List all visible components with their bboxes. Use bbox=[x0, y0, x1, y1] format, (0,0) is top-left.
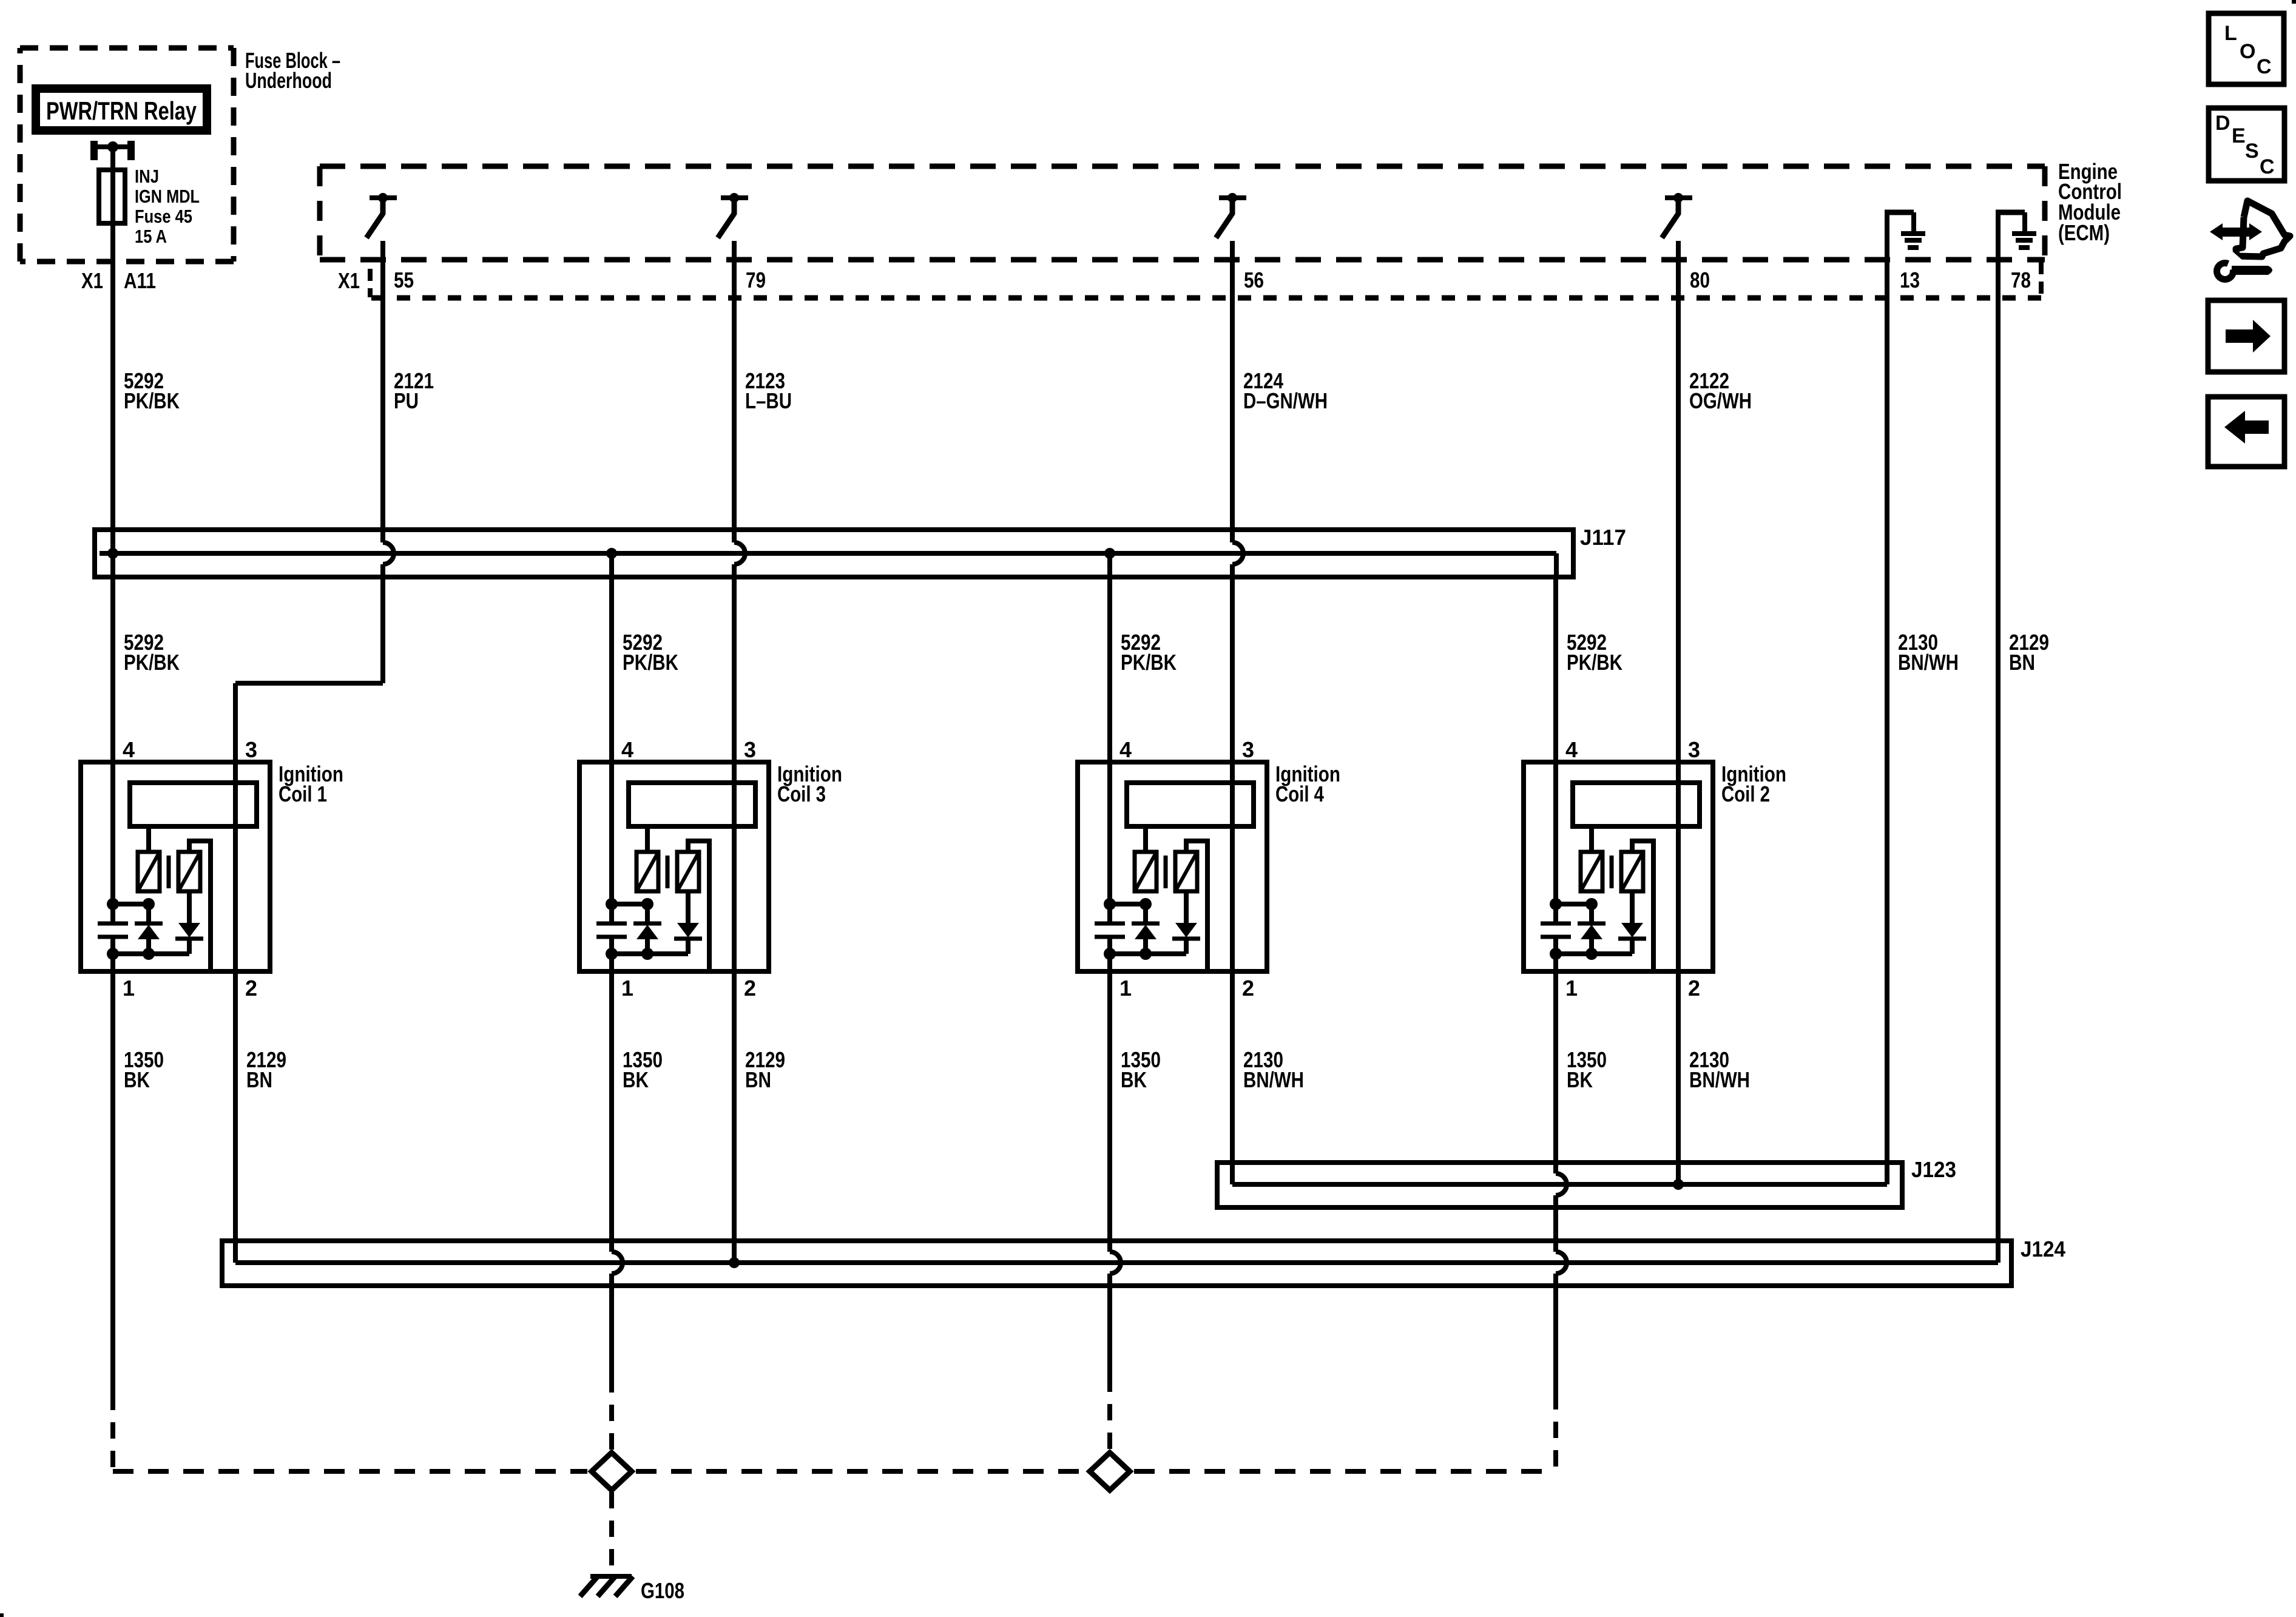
svg-text:Underhood: Underhood bbox=[245, 68, 332, 93]
wire label 2121 PU bbox=[394, 368, 434, 413]
svg-text:X1: X1 bbox=[338, 268, 360, 293]
svg-text:J117: J117 bbox=[1580, 525, 1626, 550]
coil 4 core bar bbox=[1164, 856, 1168, 888]
coil 2 internal node lower bbox=[1556, 951, 1632, 956]
svg-text:4: 4 bbox=[123, 737, 135, 762]
svg-text:BK: BK bbox=[124, 1067, 150, 1092]
wire 1350 BK coil 4 pin 1 bbox=[1107, 954, 1112, 1252]
svg-text:PK/BK: PK/BK bbox=[1121, 650, 1177, 675]
ECM driver switch pin 55 bbox=[366, 193, 397, 238]
icon forward arrow box bbox=[2208, 300, 2284, 372]
coil 2 internal node upper bbox=[1556, 902, 1592, 906]
svg-text:2: 2 bbox=[1242, 976, 1254, 1001]
coil 3 internal node lower bbox=[612, 951, 688, 956]
svg-text:OG/WH: OG/WH bbox=[1689, 388, 1752, 413]
svg-text:INJ: INJ bbox=[135, 166, 159, 187]
wire label 1350 BK coil 4 bbox=[1121, 1047, 1161, 1092]
ECM internal ground pin 78 bbox=[1996, 212, 2036, 248]
svg-text:Coil 1: Coil 1 bbox=[279, 781, 327, 806]
relay K PWR/TRN Relay bbox=[36, 89, 207, 130]
splice diamond coil 4 ground bbox=[1090, 1453, 1130, 1490]
svg-text:A11: A11 bbox=[124, 268, 156, 293]
coil 3 secondary output bbox=[688, 841, 709, 969]
coil 4 capacitor bbox=[1095, 904, 1125, 954]
svg-text:1: 1 bbox=[123, 976, 135, 1001]
ECM X1 separator bbox=[368, 269, 373, 297]
junction dot J117 coil 4 tap bbox=[1104, 548, 1115, 559]
junction dot J124 coil 3 pin 2 bbox=[729, 1257, 740, 1268]
svg-text:PWR/TRN Relay: PWR/TRN Relay bbox=[46, 96, 197, 125]
wire label 2130 BN/WH coil 2 bbox=[1689, 1047, 1750, 1092]
coil 4 internal node lower bbox=[1110, 951, 1186, 956]
splice diamond coil 3 ground bbox=[592, 1453, 632, 1490]
wire label 5292 PK/BK coil 2 bbox=[1567, 630, 1622, 675]
coil 1 primary winding bbox=[130, 783, 257, 826]
ECM connector dotted line bbox=[371, 295, 2041, 301]
svg-text:BK: BK bbox=[623, 1067, 649, 1092]
svg-text:BN/WH: BN/WH bbox=[1689, 1067, 1750, 1092]
coil 4 label bbox=[1275, 761, 1340, 806]
coil 4 secondary output bbox=[1186, 841, 1207, 969]
svg-text:4: 4 bbox=[1565, 737, 1578, 762]
wire label 1350 BK coil 3 bbox=[623, 1047, 663, 1092]
wire 2130 BN/WH coil 4 pin 2 to J123 bbox=[1230, 826, 1235, 1184]
coil 1 secondary output bbox=[189, 841, 211, 969]
svg-text:Coil 2: Coil 2 bbox=[1721, 781, 1770, 806]
wire 2130 BN/WH from ECM 13 to J123 bbox=[1885, 215, 1889, 1184]
wire 5292 PK/BK from fuse A11 to J117 and coil 1 pin 4 bbox=[110, 147, 115, 904]
junction dot J117 coil 3 tap bbox=[606, 548, 617, 559]
coil 4 driver module left element bbox=[1135, 826, 1156, 891]
wire label 5292 PK/BK coil 3 bbox=[623, 630, 678, 675]
ECM connector right edge stub bbox=[2039, 262, 2044, 298]
wire 5292 PK/BK J117 to coil 3 pin 4 bbox=[609, 553, 614, 904]
wire 5292 PK/BK J117 to coil 4 pin 4 bbox=[1107, 553, 1112, 904]
coil 4 primary winding bbox=[1127, 783, 1254, 826]
svg-text:78: 78 bbox=[2011, 268, 2031, 292]
svg-text:3: 3 bbox=[245, 737, 257, 762]
svg-text:BK: BK bbox=[1567, 1067, 1593, 1092]
coil 3 zener diode up bbox=[633, 904, 661, 954]
svg-text:4: 4 bbox=[1119, 737, 1132, 762]
wire label 5292 PK/BK bbox=[124, 368, 180, 413]
coil 1 driver module left element bbox=[138, 826, 160, 891]
svg-text:E: E bbox=[2232, 124, 2246, 147]
ECM driver switch pin 56 bbox=[1216, 193, 1246, 238]
coil 2 capacitor bbox=[1541, 904, 1571, 954]
fuse F45 INJ IGN MDL Fuse 45 15 A bbox=[99, 166, 200, 247]
coil 4 diode down bbox=[1172, 891, 1200, 954]
svg-text:80: 80 bbox=[1690, 268, 1710, 292]
svg-text:(ECM): (ECM) bbox=[2058, 220, 2110, 245]
dashed ground drop coil 4 bbox=[1107, 1376, 1112, 1451]
svg-text:C: C bbox=[2260, 155, 2275, 178]
coil 1 diode down bbox=[175, 891, 203, 954]
wire 2121 PU from ECM 55 to coil 1 pin 3 bbox=[235, 241, 394, 1263]
coil 1 capacitor bbox=[98, 904, 128, 954]
svg-text:X1: X1 bbox=[81, 268, 103, 293]
wire label 2129 BN coil 3 bbox=[745, 1047, 785, 1092]
page corner mark top right bbox=[2292, 0, 2296, 4]
svg-text:J123: J123 bbox=[1911, 1157, 1956, 1182]
coil 2 driver module right element bbox=[1621, 852, 1643, 891]
svg-text:IGN MDL: IGN MDL bbox=[135, 186, 200, 207]
svg-text:Coil 3: Coil 3 bbox=[777, 781, 826, 806]
coil 2 secondary output bbox=[1632, 841, 1653, 969]
svg-text:J124: J124 bbox=[2021, 1237, 2065, 1261]
wire label 2129 BN coil 1 bbox=[246, 1047, 286, 1092]
svg-text:2: 2 bbox=[245, 976, 257, 1001]
coil 2 zener diode up bbox=[1578, 904, 1606, 954]
icon back arrow box bbox=[2208, 397, 2284, 467]
wire 2124 D-GN/WH from ECM 56 to coil 4 pin 3 bbox=[1230, 241, 1235, 542]
wire label 5292 PK/BK coil 4 bbox=[1121, 630, 1177, 675]
coil 1 driver module right element bbox=[178, 852, 200, 891]
wire label 5292 PK/BK coil 1 bbox=[124, 630, 180, 675]
svg-text:55: 55 bbox=[394, 268, 414, 292]
svg-text:4: 4 bbox=[621, 737, 633, 762]
junction dot J123 coil 2 pin 2 bbox=[1673, 1179, 1684, 1190]
ECM dashed box Engine Control Module bbox=[320, 166, 2045, 260]
ECM driver switch pin 80 bbox=[1662, 193, 1692, 238]
coil 1 label bbox=[279, 761, 343, 806]
svg-text:3: 3 bbox=[1242, 737, 1254, 762]
dashed ground drop coil 2 bbox=[1553, 1393, 1558, 1471]
junction dot at relay terminal bbox=[107, 141, 118, 152]
wire 1350 BK coil 2 pin 1 bbox=[1553, 954, 1558, 1173]
wire label 2124 D-GN/WH bbox=[1243, 368, 1328, 413]
ECM internal ground pin 13 bbox=[1885, 212, 1925, 248]
svg-text:Coil 4: Coil 4 bbox=[1275, 781, 1324, 806]
wire 2122 OG/WH from ECM 80 to coil 2 pin 3 bbox=[1676, 241, 1681, 1184]
svg-text:Fuse 45: Fuse 45 bbox=[135, 206, 192, 227]
svg-text:S: S bbox=[2245, 140, 2259, 163]
ECM driver switch pin 79 bbox=[718, 193, 748, 238]
coil 1 core bar bbox=[167, 856, 171, 888]
svg-text:13: 13 bbox=[1900, 268, 1920, 292]
coil 4 zener diode up bbox=[1132, 904, 1160, 954]
ignition coil 3 box bbox=[579, 762, 769, 971]
dashed ground wire segment to coil 4 bbox=[636, 1469, 1086, 1474]
ignition coil 1 box bbox=[81, 762, 270, 971]
svg-text:79: 79 bbox=[746, 268, 766, 292]
wire 1350 BK coil 3 pin 1 bbox=[609, 954, 614, 1252]
svg-text:BN/WH: BN/WH bbox=[1243, 1067, 1304, 1092]
relay output terminal bracket bbox=[94, 141, 131, 160]
dashed ground drop coil 3 bbox=[609, 1376, 614, 1451]
svg-text:D–GN/WH: D–GN/WH bbox=[1243, 388, 1328, 413]
svg-text:2: 2 bbox=[1688, 976, 1700, 1001]
coil 3 capacitor bbox=[596, 904, 627, 954]
svg-text:1: 1 bbox=[1119, 976, 1132, 1001]
svg-text:56: 56 bbox=[1244, 268, 1264, 292]
coil 1 internal node lower bbox=[113, 951, 189, 956]
icon DESC box bbox=[2209, 108, 2284, 181]
wire label 2130 BN/WH bbox=[1898, 630, 1959, 675]
coil 3 primary winding bbox=[629, 783, 755, 826]
connector X1 pin A11 labels bbox=[81, 268, 156, 293]
svg-text:L–BU: L–BU bbox=[745, 388, 792, 413]
coil 1 zener diode up bbox=[135, 904, 163, 954]
dashed ground wire from coil 1 pin 1 bbox=[113, 1394, 587, 1471]
ignition coil 4 box bbox=[1078, 762, 1267, 971]
icon LOC box bbox=[2209, 13, 2284, 84]
coil 4 node dots bbox=[1104, 898, 1152, 960]
wire 2123 L-BU from ECM 79 to coil 3 pin 3 bbox=[732, 241, 737, 542]
svg-text:PU: PU bbox=[394, 388, 419, 413]
svg-text:BN/WH: BN/WH bbox=[1898, 650, 1959, 675]
splice pack J123 bbox=[1217, 1163, 1902, 1207]
wire 1350 BK coil 1 pin 1 bbox=[110, 954, 115, 1394]
coil 2 primary winding bbox=[1573, 783, 1700, 826]
coil 4 internal node upper bbox=[1110, 902, 1146, 906]
coil 3 label bbox=[777, 761, 842, 806]
svg-text:G108: G108 bbox=[641, 1578, 684, 1603]
svg-text:3: 3 bbox=[1688, 737, 1700, 762]
svg-text:L: L bbox=[2224, 22, 2237, 45]
coil 2 node dots bbox=[1550, 898, 1598, 960]
svg-text:1: 1 bbox=[1565, 976, 1578, 1001]
coil 4 driver module right element bbox=[1175, 852, 1197, 891]
coil 3 driver module left element bbox=[636, 826, 658, 891]
coil 3 driver module right element bbox=[677, 852, 699, 891]
svg-text:D: D bbox=[2215, 112, 2230, 135]
wire label 2122 OG/WH bbox=[1689, 368, 1752, 413]
fuse block label bbox=[245, 48, 340, 93]
svg-text:2: 2 bbox=[744, 976, 756, 1001]
wire label 1350 BK coil 1 bbox=[124, 1047, 164, 1092]
svg-text:1: 1 bbox=[621, 976, 633, 1001]
svg-text:3: 3 bbox=[744, 737, 756, 762]
icon wrench and arrow bbox=[2210, 201, 2290, 283]
coil 3 diode down bbox=[674, 891, 702, 954]
wire label 1350 BK coil 2 bbox=[1567, 1047, 1607, 1092]
coil 1 node dots bbox=[107, 898, 155, 960]
svg-text:BK: BK bbox=[1121, 1067, 1147, 1092]
splice pack J117 bbox=[95, 530, 1573, 577]
coil 2 core bar bbox=[1610, 856, 1614, 888]
splice pack J124 bbox=[222, 1241, 2011, 1286]
ground G108 symbol bbox=[580, 1576, 633, 1596]
svg-text:PK/BK: PK/BK bbox=[1567, 650, 1622, 675]
wire label 2129 BN bbox=[2009, 630, 2049, 675]
svg-text:PK/BK: PK/BK bbox=[124, 650, 180, 675]
coil 2 driver module left element bbox=[1581, 826, 1602, 891]
fuse block underhood dashed box bbox=[20, 48, 234, 262]
junction dot J117 fuse feed bbox=[107, 548, 118, 559]
coil 3 core bar bbox=[666, 856, 670, 888]
wire 2129 BN from ECM 78 to J124 bbox=[1996, 215, 2001, 1263]
svg-text:BN: BN bbox=[745, 1067, 771, 1092]
dashed ground wire segment to coil 2 bbox=[1134, 1469, 1556, 1474]
svg-text:O: O bbox=[2240, 40, 2255, 63]
svg-text:PK/BK: PK/BK bbox=[623, 650, 678, 675]
wire label 2130 BN/WH coil 4 bbox=[1243, 1047, 1304, 1092]
coil 3 node dots bbox=[606, 898, 653, 960]
coil 2 diode down bbox=[1618, 891, 1646, 954]
svg-text:BN: BN bbox=[246, 1067, 272, 1092]
wire label 2123 L-BU bbox=[745, 368, 792, 413]
coil 1 internal node upper bbox=[113, 902, 149, 906]
page corner mark bottom left bbox=[0, 1613, 4, 1617]
svg-text:C: C bbox=[2257, 55, 2272, 78]
wire 5292 PK/BK J117 to coil 2 pin 4 bbox=[1553, 577, 1558, 904]
coil 2 label bbox=[1721, 761, 1786, 806]
ECM label bbox=[2058, 159, 2122, 245]
svg-text:15 A: 15 A bbox=[135, 226, 167, 247]
dashed wire to G108 bbox=[609, 1492, 614, 1573]
svg-text:PK/BK: PK/BK bbox=[124, 388, 180, 413]
coil 3 internal node upper bbox=[612, 902, 647, 906]
svg-text:BN: BN bbox=[2009, 650, 2035, 675]
ignition coil 2 box bbox=[1524, 762, 1713, 971]
